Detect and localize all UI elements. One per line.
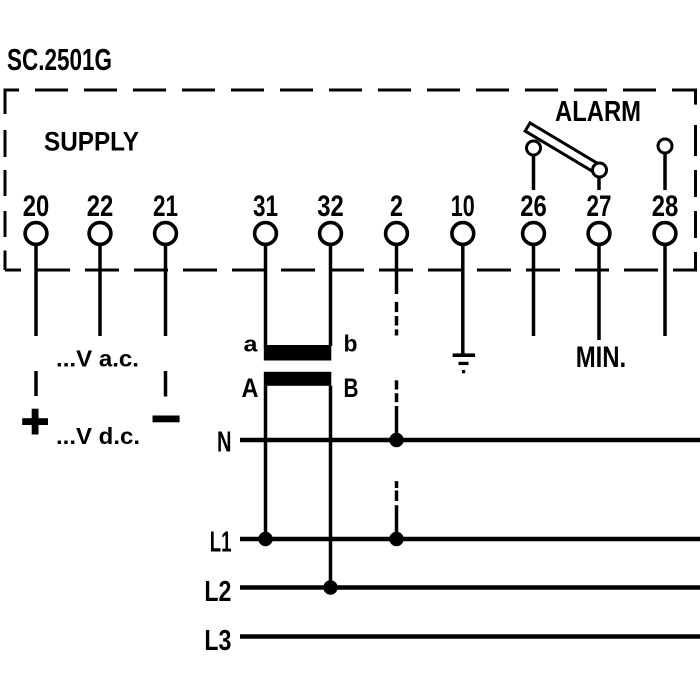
device outline dashed box left edge bbox=[4, 89, 7, 271]
wire transformer B to bus L2 bbox=[329, 386, 333, 588]
wire terminal 20 down bbox=[34, 244, 38, 336]
terminal 26 bbox=[520, 190, 547, 244]
junction dot L2 / wire B bbox=[323, 580, 337, 594]
wire contact 26 to terminal 26 bbox=[532, 155, 536, 190]
terminal 2 bbox=[386, 190, 408, 244]
svg-text:A: A bbox=[242, 373, 259, 403]
dashed wire terminal 2 to bus N bbox=[395, 244, 399, 440]
wire terminal 32 to transformer bbox=[329, 244, 333, 346]
terminal 20 bbox=[23, 190, 50, 244]
supply minus symbol bbox=[153, 416, 180, 423]
wire terminal 28 down bbox=[663, 244, 667, 336]
terminal 22 bbox=[87, 190, 114, 244]
svg-text:22: 22 bbox=[87, 190, 114, 223]
alarm relay contact pole 28 bbox=[658, 139, 672, 153]
svg-text:L2: L2 bbox=[204, 576, 231, 608]
svg-text:SUPPLY: SUPPLY bbox=[44, 127, 139, 157]
svg-text:32: 32 bbox=[317, 190, 344, 223]
svg-text:21: 21 bbox=[153, 190, 178, 223]
wire terminal 10 to ground bbox=[461, 244, 465, 355]
terminal 21 bbox=[153, 190, 178, 244]
wire terminal 31 to transformer bbox=[264, 244, 268, 346]
alarm relay contact pole 27 bbox=[593, 163, 607, 177]
current transformer winding a-b bbox=[264, 345, 332, 361]
svg-text:L1: L1 bbox=[210, 527, 232, 559]
wire terminal 22 down bbox=[98, 244, 102, 336]
svg-text:2: 2 bbox=[390, 190, 403, 223]
wire terminal 27 down bbox=[597, 244, 601, 340]
bus L2 bbox=[240, 585, 700, 590]
svg-text:ALARM: ALARM bbox=[555, 96, 641, 128]
svg-text:31: 31 bbox=[253, 190, 278, 223]
svg-text:...V a.c.: ...V a.c. bbox=[56, 345, 139, 371]
wire terminal 26 down bbox=[532, 244, 536, 336]
device outline dashed box top edge bbox=[5, 89, 697, 92]
terminal 28 bbox=[652, 190, 679, 244]
current transformer winding A-B bbox=[264, 372, 332, 386]
device outline dashed box bottom edge bbox=[5, 269, 697, 272]
svg-text:N: N bbox=[217, 427, 232, 459]
wire terminal 21 down bbox=[164, 244, 168, 336]
terminal 10 bbox=[451, 190, 475, 244]
wire stub above plus bbox=[34, 371, 38, 396]
supply plus symbol bbox=[22, 409, 48, 435]
wire stub above minus bbox=[164, 371, 168, 397]
bus L1 bbox=[240, 537, 700, 542]
terminal 31 bbox=[253, 190, 278, 244]
svg-text:L3: L3 bbox=[204, 625, 231, 657]
junction dot N / terminal 2 wire bbox=[389, 433, 403, 447]
svg-text:28: 28 bbox=[652, 190, 679, 223]
junction dot L1 / terminal 2 wire bbox=[389, 532, 403, 546]
svg-text:a: a bbox=[244, 332, 259, 357]
wire contact 27 to terminal 27 bbox=[597, 177, 601, 190]
alarm relay lever bbox=[525, 123, 602, 174]
junction dot L1 / wire A bbox=[258, 532, 272, 546]
wire contact 28 to terminal 28 bbox=[663, 153, 667, 190]
bus N bbox=[240, 438, 700, 443]
svg-text:26: 26 bbox=[520, 190, 547, 223]
svg-text:10: 10 bbox=[451, 190, 475, 223]
terminal 32 bbox=[317, 190, 344, 244]
wire transformer A to bus L1 bbox=[264, 386, 268, 539]
dashed wire bus N to bus L1 bbox=[395, 481, 399, 539]
terminal 27 bbox=[587, 190, 612, 244]
alarm relay contact pole 26 bbox=[527, 141, 541, 155]
svg-text:MIN.: MIN. bbox=[576, 341, 627, 374]
svg-text:B: B bbox=[344, 373, 359, 403]
svg-text:b: b bbox=[344, 331, 358, 357]
svg-text:SC.2501G: SC.2501G bbox=[7, 42, 112, 77]
bus L3 bbox=[240, 634, 700, 639]
svg-text:20: 20 bbox=[23, 190, 50, 223]
ground bbox=[453, 353, 476, 373]
device outline dashed box right edge bbox=[694, 89, 697, 271]
svg-text:27: 27 bbox=[587, 190, 612, 223]
svg-text:...V d.c.: ...V d.c. bbox=[56, 423, 140, 449]
